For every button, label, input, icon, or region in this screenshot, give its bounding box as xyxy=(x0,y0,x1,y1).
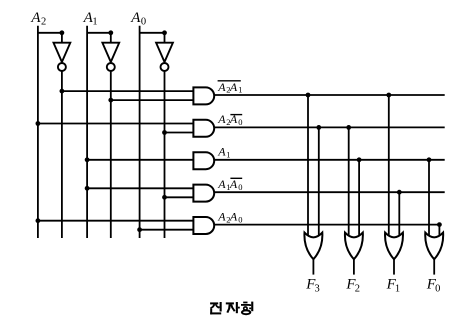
svg-text:1: 1 xyxy=(238,85,242,95)
svg-text:A: A xyxy=(217,209,226,223)
svg-text:A: A xyxy=(217,145,226,159)
svg-text:A: A xyxy=(217,177,226,191)
svg-text:0: 0 xyxy=(435,284,440,295)
svg-text:A: A xyxy=(217,112,226,126)
svg-text:1: 1 xyxy=(92,17,97,28)
svg-text:0: 0 xyxy=(238,117,242,127)
svg-text:1: 1 xyxy=(395,284,400,295)
svg-text:0: 0 xyxy=(238,214,242,224)
svg-text:2: 2 xyxy=(355,284,360,295)
svg-text:A: A xyxy=(130,10,141,26)
svg-text:0: 0 xyxy=(141,17,146,28)
svg-text:1: 1 xyxy=(226,182,230,192)
svg-text:0: 0 xyxy=(238,182,242,192)
svg-text:3: 3 xyxy=(315,284,320,295)
svg-text:2: 2 xyxy=(226,117,230,127)
svg-text:A: A xyxy=(30,10,41,26)
svg-text:2: 2 xyxy=(41,17,46,28)
svg-text:A: A xyxy=(217,80,226,94)
svg-text:1: 1 xyxy=(226,150,230,160)
svg-text:2: 2 xyxy=(226,85,230,95)
svg-text:2: 2 xyxy=(226,214,230,224)
